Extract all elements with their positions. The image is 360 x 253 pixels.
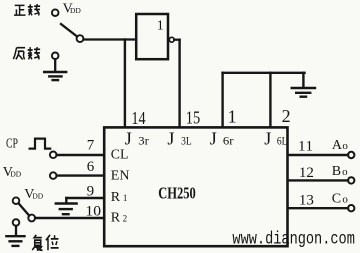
switch S1 bottom contact (反转): [52, 53, 59, 60]
switch S2 bottom contact: [13, 219, 20, 226]
svg-text:2: 2: [282, 106, 291, 126]
svg-text:2: 2: [123, 213, 128, 223]
wire stub S1 bottom contact to ground: [54, 59, 56, 71]
switch S2 common contact: [28, 215, 35, 222]
svg-text:7: 7: [87, 137, 95, 153]
svg-text:J: J: [125, 129, 132, 149]
switch S1 common contact: [77, 35, 84, 42]
wire inverter output to pin15 drop: [174, 39, 179, 41]
svg-text:1: 1: [228, 107, 237, 127]
svg-text:R: R: [111, 190, 121, 205]
wire stub bus to ground G2: [302, 73, 304, 87]
wire pin1-pin2 top bus: [223, 72, 305, 74]
svg-text:o: o: [342, 193, 348, 205]
svg-text:J: J: [210, 129, 217, 149]
label 反转: [13, 47, 40, 60]
svg-text:R: R: [111, 210, 121, 225]
svg-text:9: 9: [87, 183, 95, 199]
wire pin 1 vertical: [221, 73, 223, 127]
svg-text:J: J: [167, 129, 174, 149]
svg-text:DD: DD: [32, 192, 43, 201]
wire S2 common to pin 10: [35, 217, 104, 219]
wire pin 15 vertical: [178, 40, 180, 127]
wire pin 12: [289, 179, 348, 181]
svg-text:o: o: [342, 166, 348, 178]
svg-text:DD: DD: [70, 6, 81, 15]
ground G2 (top right): [292, 88, 315, 97]
CP contact circle: [50, 152, 57, 159]
terminal C0 circle: [348, 205, 354, 211]
wire stub S2 bottom to ground G4: [15, 226, 17, 235]
svg-text:CP: CP: [6, 137, 18, 152]
svg-text:DD: DD: [10, 170, 21, 179]
svg-text:J: J: [264, 129, 271, 149]
svg-text:14: 14: [131, 108, 145, 128]
label 正转: [14, 4, 40, 15]
svg-text:1: 1: [123, 193, 128, 203]
wire CP to pin 7: [57, 154, 104, 156]
svg-text:3L: 3L: [181, 134, 192, 148]
ground G3 (R1): [56, 204, 77, 215]
svg-text:6: 6: [87, 159, 95, 175]
terminal B0 circle: [348, 177, 354, 183]
wire pin 13: [289, 207, 348, 209]
svg-text:EN: EN: [111, 169, 130, 184]
wire pin 2 vertical: [269, 73, 271, 127]
svg-text:CH250: CH250: [158, 184, 196, 203]
CP pulse symbol: [30, 139, 51, 149]
svg-text:CL: CL: [111, 148, 129, 163]
switch S1 arm: [61, 24, 77, 36]
svg-text:12: 12: [299, 165, 314, 181]
svg-text:3r: 3r: [138, 134, 149, 148]
wire pin 9 to ground G3: [66, 197, 104, 199]
svg-text:13: 13: [299, 192, 314, 208]
switch S2 top contact (VDD reset): [13, 197, 20, 204]
ground G1 (below 反转 contact): [44, 72, 66, 80]
svg-text:C: C: [332, 191, 341, 206]
IC U1 CH250 body: [104, 127, 287, 246]
svg-text:o: o: [342, 140, 348, 152]
svg-text:11: 11: [298, 139, 313, 155]
svg-text:1: 1: [157, 19, 164, 34]
ground G4 (reset): [6, 236, 24, 246]
svg-text:B: B: [332, 164, 341, 179]
svg-text:10: 10: [85, 203, 101, 219]
inverter U2 box: [136, 14, 168, 59]
VDD contact circle (EN): [50, 172, 57, 179]
switch S2 arm: [19, 203, 30, 215]
wire S1 common to inverter input: [84, 38, 137, 40]
wire pin 14 vertical: [124, 40, 126, 128]
svg-text:15: 15: [186, 108, 200, 128]
switch S1 top contact (正转): [52, 9, 59, 16]
wire stub pin9 ground: [65, 198, 67, 203]
wire pin 11: [289, 154, 348, 156]
svg-text:A: A: [332, 138, 343, 153]
inverter U2 output bubble: [169, 37, 174, 42]
label 复位: [32, 235, 58, 250]
svg-text:www.diangon.com: www.diangon.com: [232, 229, 355, 249]
terminal A0 circle: [348, 152, 354, 158]
svg-text:6r: 6r: [223, 134, 234, 148]
svg-text:6L: 6L: [277, 134, 288, 148]
wire VDD to pin 6: [57, 174, 104, 176]
